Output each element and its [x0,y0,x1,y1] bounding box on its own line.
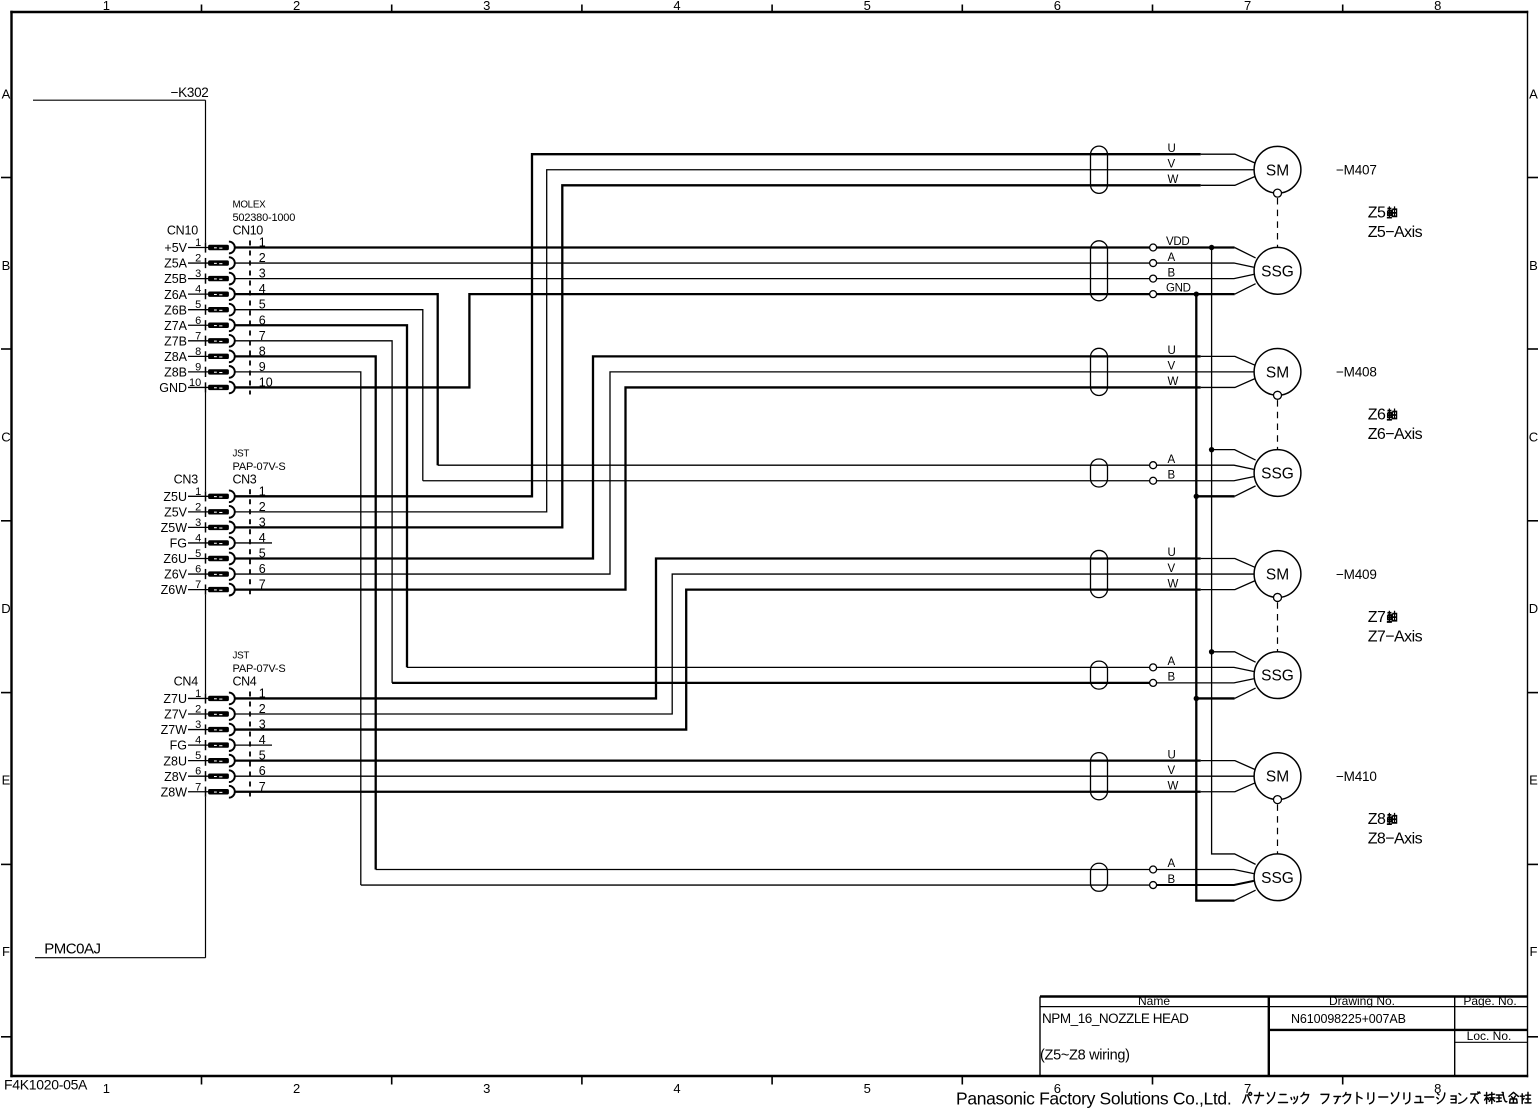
CN10 pin 9 boundary tick [205,367,207,377]
wire Z8B (CN10 to SSG4 B): pin lead + vertical [235,372,361,885]
CN4 pin 1 socket arc [229,693,235,705]
CN3 pin 3 lead wire [188,526,210,528]
CN4 pin 6 boundary tick [205,771,207,781]
encoder SSG2 circle [1254,450,1301,497]
wire Z5A (CN10 pin 2 to SSG1 A) [235,262,1150,264]
svg-text:PAP-07V-S: PAP-07V-S [233,461,286,473]
svg-text:W: W [1168,174,1179,186]
CN10 pin 7 contact [208,338,229,343]
svg-text:Drawing No.: Drawing No. [1329,994,1395,1008]
wire GND tap SSG3 [1196,697,1234,699]
junction dot GND bus at SSG1 [1194,291,1199,296]
encoder SSG1 circle [1254,247,1301,294]
CN3 pin 3 boundary tick [205,522,207,532]
dashed shaft link M407 to SSG [1277,198,1279,247]
svg-text:W: W [1168,780,1179,792]
svg-text:502380-1000: 502380-1000 [233,212,296,224]
svg-text:PAP-07V-S: PAP-07V-S [233,663,286,675]
svg-text:SSG: SSG [1261,668,1294,685]
wire Z8W (CN4 pin 7 to SM W) [235,791,1201,793]
svg-text:GND: GND [159,381,187,395]
wire Z8B horizontal run to terminal [361,884,1150,886]
CN10 pin 5 socket arc [229,304,235,316]
terminal circle SSG4 A [1150,866,1157,873]
wire Z8A horizontal run to terminal [376,869,1150,871]
CN4 pin 2 contact [208,711,229,716]
CN10 pin 10 contact [208,385,229,390]
wire Z5W (CN3 to SM W) [235,185,1201,527]
company name (japanese katakana+kanji) [1243,1092,1531,1104]
CN10 pin 7 boundary tick [205,336,207,346]
CN10 pin 8 boundary tick [205,351,207,361]
CN4 pin 5 boundary tick [205,756,207,766]
CN10 pin 6 contact [208,323,229,328]
cable shield for SM M409 [1091,550,1108,597]
wire Z6W thin end + diagonal into SM [1201,379,1256,388]
svg-text:1: 1 [103,1081,110,1096]
wire A into SSG3 + diagonal [1157,667,1254,671]
svg-text:Z6A: Z6A [164,288,188,302]
wire Z5B (CN10 pin 3 to SSG1 B) [235,278,1150,280]
CN4 pin 7 contact [208,789,229,794]
svg-text:SSG: SSG [1261,870,1294,887]
svg-text:V: V [1168,158,1176,170]
CN10 pin 8 socket arc [229,350,235,362]
svg-text:B: B [1168,672,1176,684]
axis label Z5 (kanji) [1368,205,1397,222]
CN3 FG stub wire [235,542,272,544]
wire Z8A (CN10 to SSG4 A): pin lead + vertical [235,356,376,869]
CN4 pin 6 contact [208,774,229,779]
svg-text:C: C [1,430,10,445]
connector CN3 body dashed line [249,489,251,596]
CN3 pin 3 socket arc [229,522,235,534]
CN4 pin 4 contact [208,742,229,747]
CN4 pin 5 lead wire [188,760,210,762]
svg-text:CN4: CN4 [174,674,199,688]
svg-text:(Z5~Z8 wiring): (Z5~Z8 wiring) [1040,1048,1130,1064]
svg-text:SM: SM [1266,769,1289,786]
title block outline [1040,997,1528,1077]
svg-text:A: A [1168,656,1176,668]
svg-text:D: D [1,601,10,616]
svg-text:CN10: CN10 [167,224,198,238]
CN4 pin 6 socket arc [229,770,235,782]
svg-text:SM: SM [1266,364,1289,381]
svg-text:Z5U: Z5U [163,490,187,504]
svg-text:Z8−Axis: Z8−Axis [1368,831,1423,848]
svg-text:Z6V: Z6V [164,568,188,582]
CN10 pin 9 socket arc [229,366,235,378]
svg-text:6: 6 [1054,0,1061,13]
svg-text:Z7B: Z7B [164,334,187,348]
CN4 pin 4 boundary tick [205,740,207,750]
CN4 pin 7 lead wire [188,791,210,793]
axis label Z7 (kanji) [1368,609,1397,626]
svg-text:−M410: −M410 [1336,769,1377,784]
svg-text:V: V [1168,361,1176,373]
cable shield for SSG2 [1091,459,1108,487]
svg-text:JST: JST [233,650,250,661]
wire VDD tap SSG2 + diagonal [1212,450,1256,460]
frame column tick marks top [202,5,1343,13]
svg-text:Z5: Z5 [1368,205,1386,222]
svg-text:VDD: VDD [1166,236,1189,248]
svg-text:4: 4 [673,0,680,13]
wire Z5V (CN3 to SM V) [235,170,1254,512]
wire GND (CN10 pin 10 up to SSG1 GND row) [235,294,1150,387]
svg-text:B: B [2,258,11,273]
wire B into SSG2 + diagonal [1157,477,1254,481]
terminal circle SSG2 B [1150,477,1157,484]
cable shield for SM M408 [1091,348,1108,395]
CN10 pin 2 boundary tick [205,258,207,268]
svg-text:A: A [1529,87,1538,102]
svg-text:Panasonic Factory Solutions Co: Panasonic Factory Solutions Co.,Ltd. [956,1089,1231,1109]
motor shaft terminal circle (M410) [1274,796,1282,804]
svg-text:Z6−Axis: Z6−Axis [1368,426,1423,443]
CN3 pin 6 boundary tick [205,569,207,579]
svg-text:Z7A: Z7A [164,319,188,333]
svg-text:Z8A: Z8A [164,350,188,364]
CN4 pin 3 lead wire [188,729,210,731]
svg-text:U: U [1168,547,1176,559]
wire B into SSG3 + diagonal [1157,679,1254,683]
frame row letters left [1,87,10,960]
svg-text:Z5V: Z5V [164,505,188,519]
svg-text:PMC0AJ: PMC0AJ [44,941,100,958]
svg-text:A: A [1168,252,1176,264]
CN10 pin 6 lead wire [188,324,210,326]
svg-text:JST: JST [233,448,250,459]
svg-text:Z8: Z8 [1368,811,1386,828]
CN10 pin 3 boundary tick [205,274,207,284]
svg-text:4: 4 [673,1081,680,1096]
CN4 pin 4 lead wire [188,744,210,746]
CN10 pin 2 socket arc [229,257,235,269]
svg-text:D: D [1529,601,1538,616]
wire Z5U thin end + diagonal into SM [1201,154,1256,163]
CN10 pin 3 socket arc [229,273,235,285]
CN10 pin 4 contact [208,291,229,296]
cable shield for SSG1 [1091,241,1108,301]
CN10 pin 5 lead wire [188,309,210,311]
terminal circle SSG1 VDD [1150,244,1157,251]
dashed shaft link M410 to SSG [1277,804,1279,853]
CN3 pin 2 socket arc [229,506,235,518]
svg-text:Z6U: Z6U [163,552,187,566]
svg-text:E: E [1529,773,1538,788]
svg-text:SM: SM [1266,162,1289,179]
svg-text:Z6B: Z6B [164,303,187,317]
svg-text:Z7W: Z7W [161,723,188,737]
CN4 pin 3 socket arc [229,724,235,736]
motor shaft terminal circle (M408) [1274,391,1282,399]
frame row tick marks right [1528,178,1539,1037]
svg-text:B: B [1168,469,1176,481]
svg-text:3: 3 [483,0,490,13]
junction dot GND tap SSG3 [1194,696,1199,701]
CN10 pin 2 lead wire [188,262,210,264]
svg-text:Z8B: Z8B [164,366,187,380]
stepper motor M410 circle [1254,753,1301,800]
svg-text:U: U [1168,143,1176,155]
terminal circle SSG1 A [1150,260,1157,267]
wire Z7U (CN4 to SM U) [235,559,1201,699]
wire VDD tap SSG3 + diagonal [1212,652,1256,662]
svg-text:SM: SM [1266,567,1289,584]
stepper motor M407 circle [1254,146,1301,193]
wire Z6W (CN3 to SM W) [235,387,1201,589]
svg-text:CN3: CN3 [233,472,257,486]
wire +5V/VDD (CN10 pin 1 to SSG1 VDD) [235,246,1150,248]
CN4 pin 1 boundary tick [205,693,207,703]
frame column numbers bottom [103,1081,1442,1096]
stepper motor M409 circle [1254,551,1301,598]
svg-text:V: V [1168,765,1176,777]
CN10 pin 7 lead wire [188,340,210,342]
svg-text:2: 2 [293,0,300,13]
dashed shaft link M409 to SSG [1277,602,1279,651]
CN10 pin 4 socket arc [229,288,235,300]
VDD bus vertical + SSG4 tap [1212,248,1256,865]
CN3 pin 7 contact [208,587,229,592]
CN10 pin 9 contact [208,369,229,374]
CN4 pin 1 contact [208,696,229,701]
svg-text:Z7U: Z7U [163,692,187,706]
CN10 pin 8 contact [208,354,229,359]
cable shield for SM M410 [1091,753,1108,800]
cable shield for SSG3 [1091,661,1108,689]
GND SSG4 tap diagonal [1235,890,1256,900]
CN10 pin 1 socket arc [229,242,235,254]
svg-text:Z5W: Z5W [161,521,188,535]
svg-text:A: A [2,87,11,102]
svg-text:8: 8 [1434,0,1441,13]
motor shaft terminal circle (M409) [1274,593,1282,601]
CN4 pin 2 boundary tick [205,709,207,719]
wire GND diagonal into SSG1 [1235,284,1256,294]
CN3 pin 1 contact [208,494,229,499]
CN10 pin 3 lead wire [188,278,210,280]
CN3 pin 2 lead wire [188,511,210,513]
wire Z8U thin end + diagonal into SM [1201,761,1256,770]
wire GND tap SSG2 diagonal [1235,486,1256,496]
svg-text:Z6W: Z6W [161,583,188,597]
svg-text:A: A [1168,454,1176,466]
wire Z7A (CN10 to SSG3 A): pin lead + vertical [235,325,407,667]
CN4 pin 1 lead wire [188,697,210,699]
svg-text:B: B [1168,874,1176,886]
connector CN10 body dashed line [249,241,251,395]
terminal circle SSG4 B [1150,882,1157,889]
svg-text:E: E [2,773,11,788]
svg-text:CN4: CN4 [233,674,257,688]
CN3 pin 4 boundary tick [205,538,207,548]
wire Z6V (CN3 to SM V) [235,372,1254,574]
svg-text:Page. No.: Page. No. [1463,994,1516,1008]
wire Z8U (CN4 pin 5 to SM U) [235,760,1201,762]
svg-text:Z7−Axis: Z7−Axis [1368,628,1423,645]
wire Z5W thin end + diagonal into SM [1201,176,1256,185]
axis label Z8 (kanji) [1368,811,1397,828]
svg-text:MOLEX: MOLEX [233,200,267,211]
CN10 pin 5 contact [208,307,229,312]
svg-text:Z5B: Z5B [164,272,187,286]
svg-text:W: W [1168,376,1179,388]
junction dot GND tap SSG2 [1194,494,1199,499]
wire Z7B (CN10 to SSG3 B): pin lead + vertical [235,341,392,683]
CN3 pin 4 contact [208,540,229,545]
CN4 pin 3 boundary tick [205,724,207,734]
terminal circle SSG3 A [1150,664,1157,671]
wire VDD into SSG1 [1157,246,1235,248]
svg-text:5: 5 [864,0,871,13]
wire Z6B (CN10 to SSG2 B): pin lead + vertical [235,310,423,481]
CN4 pin 2 socket arc [229,708,235,720]
svg-text:5: 5 [864,1081,871,1096]
wire Z7W thin end + diagonal into SM [1201,581,1256,590]
CN3 pin 5 lead wire [188,558,210,560]
CN3 pin 7 socket arc [229,584,235,596]
svg-text:Z8W: Z8W [161,785,188,799]
svg-text:CN3: CN3 [174,472,199,486]
wire Z6A (CN10 to SSG2 A): pin lead + vertical [235,294,438,465]
svg-text:V: V [1168,563,1176,575]
terminal circle SSG2 A [1150,462,1157,469]
svg-text:SSG: SSG [1261,263,1294,280]
CN10 pin 1 contact [208,245,229,250]
CN3 pin 5 contact [208,556,229,561]
CN3 pin 6 lead wire [188,573,210,575]
svg-text:−M407: −M407 [1336,163,1377,178]
connector CN4 body dashed line [249,691,251,798]
svg-text:7: 7 [1244,0,1251,13]
CN10 pin 5 boundary tick [205,305,207,315]
CN4 pin 5 socket arc [229,755,235,767]
svg-text:Z7: Z7 [1368,609,1386,626]
dashed shaft link M408 to SSG [1277,400,1279,449]
svg-text:F: F [2,944,10,959]
frame column tick marks bottom [202,1076,1343,1085]
svg-text:+5V: +5V [164,241,187,255]
CN3 pin 1 socket arc [229,490,235,502]
terminal circle SSG1 GND [1150,291,1157,298]
svg-text:GND: GND [1166,283,1191,295]
relay block K302 outline [33,100,206,958]
encoder SSG3 circle [1254,652,1301,699]
svg-text:N610098225+007AB: N610098225+007AB [1291,1012,1406,1026]
wire Z6U thin end + diagonal into SM [1201,356,1256,365]
wire Z6B horizontal run to terminal [423,480,1150,482]
svg-text:Z5A: Z5A [164,257,188,271]
wire B into SSG4 + diagonal [1157,881,1254,885]
CN3 pin 3 contact [208,525,229,530]
junction dot VDD tap SSG3 [1209,649,1214,654]
wire A into SSG4 + diagonal [1157,870,1254,874]
svg-text:Z6: Z6 [1368,407,1386,424]
wire VDD diagonal into SSG1 [1235,248,1256,258]
svg-text:F: F [1530,944,1538,959]
CN3 pin 6 socket arc [229,568,235,580]
wire GND tap SSG2 [1196,495,1234,497]
CN3 pin 2 contact [208,509,229,514]
GND bus vertical + SSG4 tap [1196,294,1234,900]
CN4 pin 5 contact [208,758,229,763]
terminal circle SSG3 B [1150,679,1157,686]
CN3 pin 7 boundary tick [205,585,207,595]
svg-text:B: B [1168,267,1176,279]
CN4 pin 2 lead wire [188,713,210,715]
CN4 pin 6 lead wire [188,775,210,777]
svg-text:FG: FG [170,739,187,753]
svg-text:SSG: SSG [1261,465,1294,482]
svg-text:A: A [1168,858,1176,870]
wire A into SSG2 + diagonal [1157,465,1254,469]
cable shield for SSG4 [1091,863,1108,891]
CN4 pin 7 boundary tick [205,787,207,797]
svg-text:Z8V: Z8V [164,770,188,784]
wire Z8W thin end + diagonal into SM [1201,783,1256,792]
junction dot VDD tap SSG2 [1209,447,1214,452]
axis label Z6 (kanji) [1368,407,1397,424]
svg-text:W: W [1168,578,1179,590]
CN10 pin 2 contact [208,260,229,265]
CN4 pin 3 contact [208,727,229,732]
wire B into SSG1 + diagonal [1157,274,1254,278]
cable shield for SM M407 [1091,146,1108,193]
svg-text:3: 3 [483,1081,490,1096]
wire Z7W (CN4 to SM W) [235,590,1201,730]
CN10 pin 10 boundary tick [205,382,207,392]
svg-text:1: 1 [103,0,110,13]
svg-text:2: 2 [293,1081,300,1096]
svg-text:NPM_16_NOZZLE HEAD: NPM_16_NOZZLE HEAD [1042,1011,1189,1026]
CN10 pin 1 boundary tick [205,242,207,252]
CN3 pin 2 boundary tick [205,507,207,517]
CN10 pin 10 lead wire [188,386,210,388]
wire GND into SSG1 [1157,293,1235,295]
svg-text:Z5−Axis: Z5−Axis [1368,224,1423,241]
CN3 pin 1 lead wire [188,495,210,497]
wire GND tap SSG3 diagonal [1235,688,1256,698]
wire Z6U (CN3 to SM U) [235,356,1201,558]
CN3 pin 5 boundary tick [205,553,207,563]
frame row tick marks left [1,178,12,1037]
encoder SSG4 circle [1254,854,1301,901]
wire Z7A horizontal run to terminal [407,666,1150,668]
svg-text:U: U [1168,749,1176,761]
svg-text:C: C [1529,430,1538,445]
wire Z7U thin end + diagonal into SM [1201,559,1256,568]
svg-text:F4K1020-05A: F4K1020-05A [4,1077,88,1093]
CN4 pin 7 socket arc [229,786,235,798]
CN4 FG stub wire [235,744,272,746]
CN3 pin 6 contact [208,571,229,576]
svg-text:Loc. No.: Loc. No. [1467,1029,1512,1043]
stepper motor M408 circle [1254,349,1301,396]
svg-text:B: B [1529,258,1538,273]
wire Z8V (CN4 pin 6 to SM V) [235,775,1254,777]
frame row letters right [1529,87,1538,960]
CN10 pin 4 boundary tick [205,289,207,299]
CN10 pin 6 boundary tick [205,320,207,330]
CN10 pin 7 socket arc [229,335,235,347]
svg-text:−K302: −K302 [171,85,209,100]
CN10 pin 9 lead wire [188,371,210,373]
CN3 pin 7 lead wire [188,589,210,591]
wire Z6A horizontal run to terminal [438,464,1150,466]
